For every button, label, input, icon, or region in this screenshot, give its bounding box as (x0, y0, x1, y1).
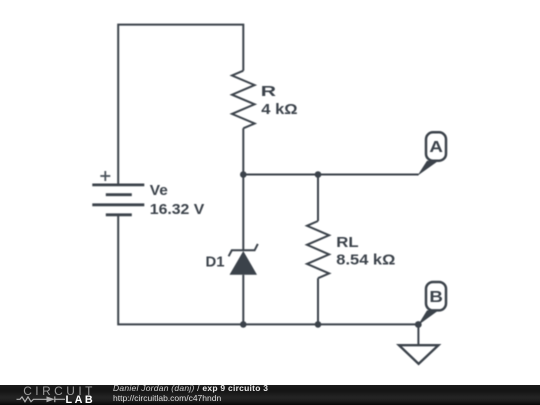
svg-text:4 kΩ: 4 kΩ (261, 102, 298, 118)
svg-text:16.32 V: 16.32 V (150, 202, 205, 218)
svg-text:B: B (429, 289, 443, 306)
svg-text:R: R (261, 84, 277, 100)
svg-text:RL: RL (336, 235, 358, 251)
svg-text:Ve: Ve (150, 183, 168, 199)
svg-text:8.54 kΩ: 8.54 kΩ (336, 252, 395, 268)
svg-text:A: A (429, 139, 443, 156)
svg-text:D1: D1 (206, 255, 225, 271)
svg-text:LAB: LAB (66, 394, 96, 405)
